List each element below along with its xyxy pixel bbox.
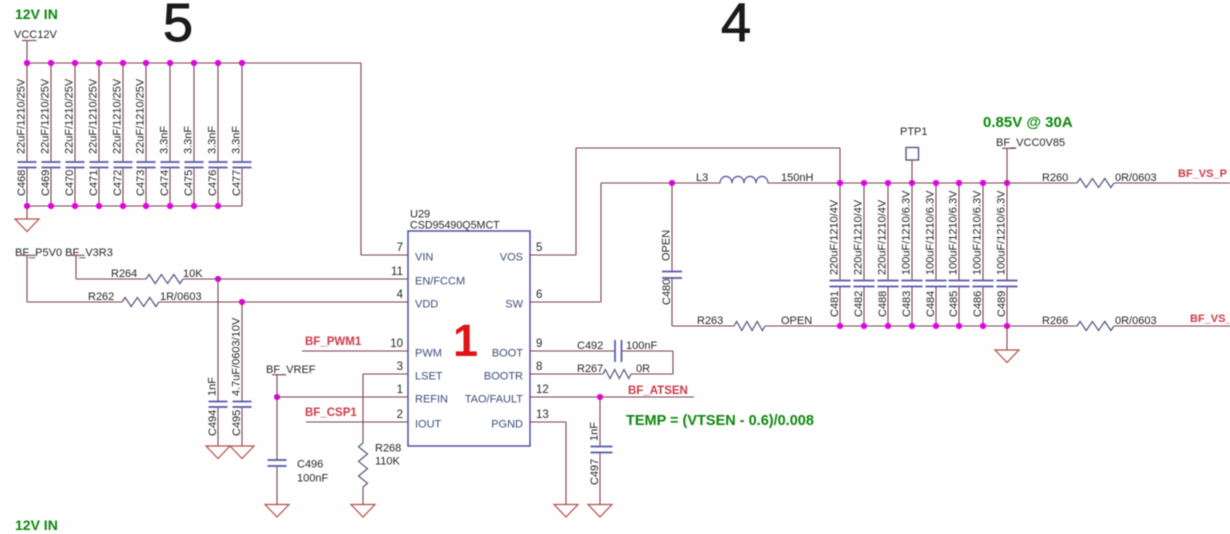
junction dots input bank bottom bus [24, 203, 221, 209]
svg-text:13: 13 [536, 409, 549, 421]
svg-text:BF_CSP1: BF_CSP1 [305, 407, 357, 419]
wire L3 to output bank [768, 182, 840, 184]
resistor R267 0R [530, 363, 673, 379]
capacitor C481 220uF/1210/4V [829, 183, 851, 326]
wire R263 to output bank bottom [765, 325, 840, 327]
svg-text:C468: C468 [16, 170, 28, 196]
capacitor C488 220uF/1210/4V [877, 183, 899, 326]
svg-text:3: 3 [397, 361, 403, 373]
svg-text:C480: C480 [661, 279, 673, 305]
svg-text:0R: 0R [636, 363, 650, 375]
wire BF_PWM1 to PWM pin 10 [302, 350, 408, 352]
wire LSET drop to R268 [362, 374, 364, 443]
svg-text:3.3nF: 3.3nF [159, 126, 171, 154]
svg-text:BF_PWM1: BF_PWM1 [305, 336, 362, 348]
svg-text:1nF: 1nF [589, 422, 601, 441]
svg-text:110K: 110K [375, 456, 401, 468]
svg-text:10: 10 [390, 338, 403, 350]
wire output bank bottom bus [840, 325, 1077, 327]
svg-text:C476: C476 [207, 170, 219, 196]
svg-text:100uF/1210/6.3V: 100uF/1210/6.3V [996, 190, 1008, 275]
net label BF_P5V0 BF_V3R3 [15, 247, 113, 259]
svg-text:BF_VS_P: BF_VS_P [1178, 168, 1227, 180]
svg-text:PTP1: PTP1 [900, 126, 928, 138]
ground (PGND) [554, 505, 578, 518]
svg-text:EN/FCCM: EN/FCCM [415, 276, 465, 288]
svg-text:C489: C489 [996, 291, 1008, 317]
capacitor C470 22uF/1210/25V [64, 63, 85, 206]
capacitor C484 100uF/1210/6.3V [925, 183, 947, 326]
svg-text:4.7uF/0603/10V: 4.7uF/0603/10V [231, 317, 243, 396]
pin 11 EN/FCCM [391, 266, 465, 288]
net label 12V IN (top) [15, 6, 58, 22]
wire to BF_VS_N [1114, 325, 1230, 327]
pin 9 BOOT [492, 338, 543, 360]
wire VOS net [530, 148, 840, 255]
net label VCC12V [14, 29, 57, 41]
node VDD/C495 junction [239, 299, 245, 305]
svg-text:3.3nF: 3.3nF [183, 126, 195, 154]
svg-text:VCC12V: VCC12V [14, 29, 57, 41]
svg-text:220uF/1210/4V: 220uF/1210/4V [877, 199, 889, 275]
svg-text:C477: C477 [231, 170, 243, 196]
wire BF_VREF stub [272, 375, 286, 397]
capacitor C471 22uF/1210/25V [88, 63, 109, 206]
svg-text:100uF/1210/6.3V: 100uF/1210/6.3V [901, 190, 913, 275]
pin 5 VOS [500, 242, 543, 264]
svg-text:C495: C495 [231, 410, 243, 436]
svg-text:R267: R267 [577, 363, 603, 375]
pin 12 TAO/FAULT [465, 384, 549, 406]
svg-text:BOOT: BOOT [492, 348, 523, 360]
svg-text:220uF/1210/4V: 220uF/1210/4V [829, 199, 841, 275]
node REFIN junction [274, 394, 280, 400]
svg-text:8: 8 [536, 361, 542, 373]
svg-text:22uF/1210/25V: 22uF/1210/25V [64, 78, 76, 154]
svg-text:C474: C474 [159, 170, 171, 196]
svg-text:VIN: VIN [415, 252, 433, 264]
svg-text:4: 4 [397, 289, 404, 301]
svg-text:C497: C497 [589, 459, 601, 485]
net label BF_PWM1 [305, 336, 362, 348]
svg-text:C470: C470 [64, 170, 76, 196]
IC page marker 1 [453, 315, 478, 366]
pin 10 PWM [390, 338, 442, 360]
sheet zone number 5 [163, 0, 193, 53]
svg-text:220uF/1210/4V: 220uF/1210/4V [853, 199, 865, 275]
svg-text:R263: R263 [697, 315, 723, 327]
svg-text:C469: C469 [40, 170, 52, 196]
net label BF_VCC0V85 [996, 137, 1065, 149]
capacitor C495 4.7uF/0603/10V [231, 302, 252, 446]
svg-text:C484: C484 [925, 291, 937, 317]
svg-text:PWM: PWM [415, 348, 442, 360]
resistor R264 10K [76, 268, 203, 284]
svg-text:4: 4 [721, 0, 751, 53]
svg-text:100nF: 100nF [297, 473, 328, 485]
svg-text:C481: C481 [829, 291, 841, 317]
svg-text:100uF/1210/6.3V: 100uF/1210/6.3V [925, 190, 937, 275]
net label BF_ATSEN [628, 385, 688, 397]
ground (input cap bank) [15, 206, 39, 232]
net label BF_VS_P [1178, 168, 1227, 180]
formula text [626, 413, 814, 429]
net label 0.85V @ 30A [983, 114, 1073, 131]
svg-text:3.3nF: 3.3nF [231, 126, 243, 154]
capacitor C492 100nF [530, 340, 673, 362]
svg-text:C486: C486 [972, 291, 984, 317]
capacitor C468 22uF/1210/25V [16, 63, 37, 206]
svg-text:TEMP = (VTSEN - 0.6)/0.008: TEMP = (VTSEN - 0.6)/0.008 [626, 413, 814, 429]
svg-text:1: 1 [453, 315, 478, 366]
capacitor C473 22uF/1210/25V [135, 63, 156, 206]
svg-text:5: 5 [536, 242, 542, 254]
svg-text:7: 7 [397, 242, 403, 254]
ground (C496) [265, 505, 289, 518]
svg-text:22uF/1210/25V: 22uF/1210/25V [16, 78, 28, 154]
svg-text:L3: L3 [696, 172, 708, 184]
pin 6 SW [505, 289, 542, 311]
svg-text:R266: R266 [1042, 315, 1068, 327]
capacitor C482 220uF/1210/4V [853, 183, 875, 326]
wire SW net [530, 183, 720, 302]
capacitor C497 1nF [589, 397, 613, 505]
ground (C497) [588, 505, 612, 518]
svg-text:C473: C473 [135, 170, 147, 196]
capacitor C469 22uF/1210/25V [40, 63, 61, 206]
svg-text:12V IN: 12V IN [15, 6, 58, 22]
svg-text:12V IN: 12V IN [15, 517, 58, 533]
svg-text:CSD95490Q5MCT: CSD95490Q5MCT [410, 220, 500, 232]
svg-text:100uF/1210/6.3V: 100uF/1210/6.3V [948, 190, 960, 275]
junction dots output bank top bus [837, 180, 1010, 186]
svg-text:C483: C483 [901, 291, 913, 317]
wire input bank bottom bus [27, 205, 242, 207]
svg-text:0.85V @ 30A: 0.85V @ 30A [983, 114, 1073, 131]
op IC U29 CSD95490Q5MCT body [408, 209, 530, 447]
wire BF_CSP1 to IOUT pin 2 [306, 421, 408, 423]
svg-text:C494: C494 [207, 410, 219, 436]
testpoint PTP1 [900, 126, 928, 183]
pin 13 PGND [491, 409, 549, 431]
svg-text:12: 12 [536, 384, 549, 396]
pin 3 LSET [397, 361, 443, 383]
svg-text:PGND: PGND [491, 419, 523, 431]
svg-text:22uF/1210/25V: 22uF/1210/25V [135, 78, 147, 154]
svg-text:C492: C492 [577, 340, 603, 352]
wire BF_V3R3 stub [71, 255, 85, 279]
pin 4 VDD [397, 289, 439, 311]
capacitor C494 1nF [207, 279, 228, 446]
capacitor C485 100uF/1210/6.3V [948, 183, 970, 326]
svg-text:OPEN: OPEN [781, 315, 812, 327]
junction dots output bank bottom bus [837, 323, 1010, 329]
capacitor C483 100uF/1210/6.3V [901, 183, 923, 326]
pin 7 VIN [397, 242, 434, 264]
wire output bank top bus [840, 182, 1077, 184]
svg-text:BF_ATSEN: BF_ATSEN [628, 385, 688, 397]
wire BOOT/BOOTR connector [672, 351, 674, 374]
wire to REFIN pin 1 [277, 396, 408, 398]
sheet zone number 4 [721, 0, 751, 53]
wire PGND pin 13 [530, 422, 566, 505]
resistor R268 110K [359, 443, 402, 488]
svg-text:1R/0603: 1R/0603 [160, 291, 202, 303]
svg-text:VOS: VOS [500, 252, 523, 264]
capacitor C496 100nF [268, 397, 329, 505]
svg-text:R262: R262 [88, 291, 114, 303]
svg-text:R268: R268 [375, 443, 401, 455]
svg-text:R264: R264 [111, 268, 137, 280]
ground (output bank) [995, 326, 1019, 363]
svg-text:0R/0603: 0R/0603 [1115, 172, 1157, 184]
svg-text:REFIN: REFIN [415, 394, 448, 406]
svg-text:C472: C472 [112, 170, 124, 196]
svg-text:SW: SW [505, 299, 523, 311]
svg-text:0R/0603: 0R/0603 [1115, 315, 1157, 327]
wire to VIN pin [361, 254, 408, 256]
svg-text:BF_VS_N: BF_VS_N [1190, 313, 1230, 325]
svg-text:LSET: LSET [415, 371, 443, 383]
inductor L3 150nH [696, 172, 813, 184]
svg-text:1nF: 1nF [207, 377, 219, 396]
svg-text:BOOTR: BOOTR [484, 371, 523, 383]
svg-text:6: 6 [536, 289, 542, 301]
svg-text:22uF/1210/25V: 22uF/1210/25V [40, 78, 52, 154]
wire R264 to EN/FCCM pin 11 [183, 278, 408, 280]
node SW/C480 junction [669, 180, 675, 186]
resistor R260 0R/0603 [1042, 172, 1157, 188]
net label 12V IN (bottom) [15, 517, 58, 533]
node TAO/C497 junction [597, 394, 603, 400]
svg-text:C488: C488 [877, 291, 889, 317]
wire BF_VCC0V85 stub [1002, 148, 1016, 183]
svg-text:C485: C485 [948, 291, 960, 317]
svg-text:11: 11 [391, 266, 403, 278]
svg-text:9: 9 [536, 338, 542, 350]
svg-text:C471: C471 [88, 170, 100, 196]
wire VCC12V top bus [27, 62, 362, 64]
wire R262 to VDD pin 4 [159, 301, 408, 303]
svg-text:100nF: 100nF [626, 340, 657, 352]
wire TAO/FAULT to BF_ATSEN [530, 396, 694, 398]
svg-text:C475: C475 [183, 170, 195, 196]
svg-text:R260: R260 [1042, 172, 1068, 184]
wire VCC12V stub [22, 41, 37, 64]
ground (C495) [230, 446, 254, 459]
capacitor C476 3.3nF [207, 63, 228, 206]
ground (C494) [206, 446, 230, 459]
capacitor C489 100uF/1210/6.3V [996, 183, 1018, 326]
ground (R268) [351, 487, 375, 517]
capacitor C475 3.3nF [183, 63, 204, 206]
wire LSET pin 3 [363, 373, 408, 375]
svg-text:2: 2 [397, 409, 403, 421]
svg-text:C496: C496 [297, 459, 323, 471]
net label BF_VREF [266, 364, 316, 376]
capacitor C486 100uF/1210/6.3V [972, 183, 994, 326]
node EN/C494 junction [215, 276, 221, 282]
svg-text:3.3nF: 3.3nF [207, 126, 219, 154]
net label BF_CSP1 [305, 407, 357, 419]
pin 8 BOOTR [484, 361, 543, 383]
resistor R263 OPEN [672, 315, 812, 331]
wire to BF_VS_P [1114, 182, 1230, 184]
svg-text:1: 1 [397, 384, 403, 396]
svg-text:5: 5 [163, 0, 193, 53]
pin 2 IOUT [397, 409, 442, 431]
svg-text:150nH: 150nH [781, 172, 813, 184]
svg-text:22uF/1210/25V: 22uF/1210/25V [112, 78, 124, 154]
svg-text:BF_VCC0V85: BF_VCC0V85 [996, 137, 1065, 149]
svg-text:VDD: VDD [415, 299, 438, 311]
svg-text:100uF/1210/6.3V: 100uF/1210/6.3V [972, 190, 984, 275]
capacitor C474 3.3nF [159, 63, 180, 206]
wire VIN drop [360, 63, 362, 255]
capacitor C472 22uF/1210/25V [112, 63, 133, 206]
svg-text:TAO/FAULT: TAO/FAULT [465, 394, 524, 406]
capacitor C480 OPEN [661, 183, 683, 326]
wire BF_P5V0 stub [22, 255, 36, 302]
svg-text:22uF/1210/25V: 22uF/1210/25V [88, 78, 100, 154]
pin 1 REFIN [397, 384, 448, 406]
svg-text:OPEN: OPEN [661, 230, 673, 261]
capacitor C477 3.3nF [231, 63, 252, 206]
svg-text:10K: 10K [183, 268, 203, 280]
net label BF_VS_N [1190, 313, 1230, 325]
resistor R262 1R/0603 [27, 291, 202, 307]
svg-text:IOUT: IOUT [415, 419, 442, 431]
svg-text:C482: C482 [853, 291, 865, 317]
resistor R266 0R/0603 [1042, 315, 1157, 331]
junction dots input bank top bus [24, 60, 245, 66]
svg-text:BF_P5V0 BF_V3R3: BF_P5V0 BF_V3R3 [15, 247, 113, 259]
